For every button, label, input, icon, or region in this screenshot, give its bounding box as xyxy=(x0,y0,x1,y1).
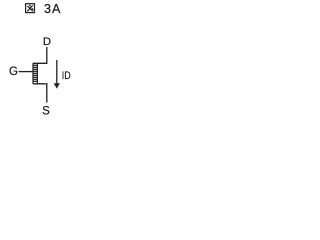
svg-text:D: D xyxy=(43,36,51,48)
svg-text:G: G xyxy=(9,66,18,78)
figure label 図 (drawn glyph) xyxy=(26,4,35,13)
wire: source lead from bar right then down to S xyxy=(33,84,47,103)
svg-text:A: A xyxy=(52,2,61,16)
wire: drain lead from D down then left to channel bar xyxy=(33,47,47,63)
current arrow ID shaft xyxy=(56,60,58,84)
svg-text:S: S xyxy=(42,106,50,118)
current arrow ID head xyxy=(54,83,60,88)
svg-text:ID: ID xyxy=(62,70,71,82)
svg-text:3: 3 xyxy=(44,2,51,16)
transistor Q1: hatched gate/channel bar xyxy=(33,63,38,84)
figure label text 3A xyxy=(44,2,61,16)
wire: gate lead xyxy=(19,71,34,73)
